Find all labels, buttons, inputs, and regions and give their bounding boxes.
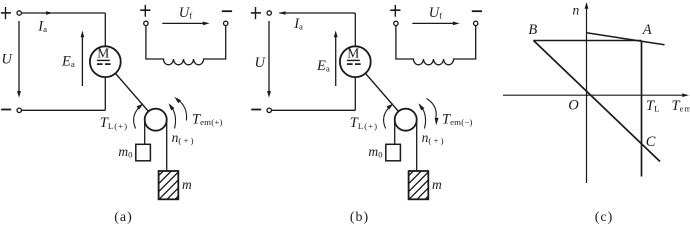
svg-text:M: M bbox=[97, 46, 109, 61]
svg-text:m: m bbox=[182, 177, 192, 192]
svg-text:A: A bbox=[642, 22, 652, 38]
svg-text:(c): (c) bbox=[595, 210, 614, 224]
svg-text:(a): (a) bbox=[114, 210, 133, 224]
svg-text:U: U bbox=[255, 55, 267, 71]
svg-text:M: M bbox=[347, 46, 359, 61]
svg-text:m: m bbox=[432, 177, 442, 192]
svg-text:(b): (b) bbox=[350, 210, 369, 224]
svg-text:n: n bbox=[573, 3, 580, 18]
svg-text:B: B bbox=[528, 22, 537, 38]
svg-text:U: U bbox=[1, 51, 13, 67]
svg-text:O: O bbox=[568, 98, 579, 114]
svg-text:C: C bbox=[646, 134, 656, 150]
